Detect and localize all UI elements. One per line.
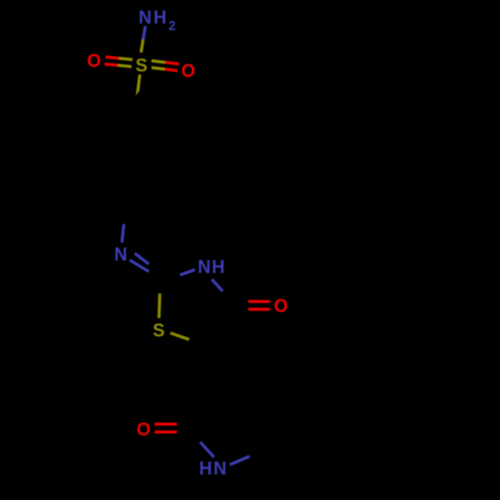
bond C2'-N1' blue half	[200, 442, 214, 457]
double bond S=O right, line 1 (olive half)	[152, 61, 166, 63]
bond C(aryl)-N blue half	[122, 224, 124, 243]
svg-text:S: S	[136, 56, 148, 76]
double bond S=O right, line 2 (olive half)	[152, 68, 165, 70]
svg-text:H: H	[199, 458, 212, 478]
double bond C2'=O, lower red half	[155, 431, 177, 434]
bond N(H2)-S blue half	[143, 26, 145, 40]
svg-text:O: O	[137, 420, 151, 440]
double bond C2'=O, upper red half	[155, 423, 177, 426]
svg-text:N: N	[214, 458, 227, 478]
svg-text:H: H	[154, 7, 167, 27]
double bond S=O right, line 1 (red half)	[165, 62, 179, 64]
bond C2-S1 olive half	[158, 294, 162, 319]
double bond N=C2, inner line (blue half)	[135, 253, 149, 264]
svg-text:S: S	[153, 320, 165, 340]
svg-text:2: 2	[169, 18, 176, 33]
bond N(H2)-S olive half	[141, 40, 143, 53]
svg-text:N: N	[139, 7, 152, 27]
double bond C4=O, upper red half	[248, 300, 269, 303]
svg-text:H: H	[212, 257, 225, 277]
double bond S=O left, line 2 (olive half)	[118, 65, 132, 66]
exocyclic double bond C5=C3' (carbon, invisible)	[189, 339, 218, 375]
oxindole N1'-H label HN	[199, 458, 226, 478]
svg-text:O: O	[87, 51, 101, 71]
double bond C4=O, lower red half	[248, 308, 269, 311]
svg-text:N: N	[198, 257, 211, 277]
svg-text:O: O	[274, 296, 288, 316]
double bond S=O left, line 1 (olive half)	[119, 58, 133, 59]
svg-text:O: O	[181, 61, 195, 81]
benzene ring (carbon, invisible on black)	[95, 96, 168, 207]
bond N3-C4 blue half	[212, 279, 223, 291]
double bond S=O right, line 2 (red half)	[165, 69, 178, 71]
bond C2-N3 blue half	[180, 270, 195, 275]
bond S1-C5 olive half	[170, 333, 189, 339]
bond S-C(aryl) olive half	[137, 75, 140, 97]
thiazolidinone N3-H label NH	[198, 257, 225, 277]
double bond S=O left, line 2 (red half)	[105, 64, 119, 65]
double bond S=O left, line 1 (red half)	[106, 57, 120, 58]
svg-text:N: N	[114, 244, 127, 264]
double bond N=C2, outer line (blue half)	[130, 260, 149, 272]
amide label NH2 (sulfonamide nitrogen)	[139, 7, 176, 33]
bond N1'-C7a blue half	[230, 456, 250, 465]
